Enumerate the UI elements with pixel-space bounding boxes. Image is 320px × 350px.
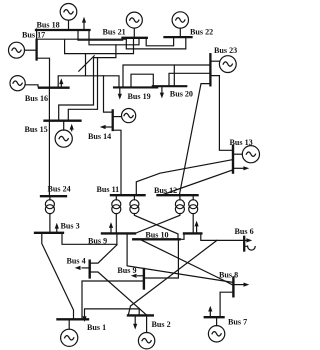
- svg-text:Bus 9: Bus 9: [88, 237, 107, 246]
- wire 18-21 ckt2: [89, 30, 139, 45]
- load arrow bus 18: [82, 17, 86, 29]
- wire G23 lead: [210, 60, 219, 62]
- wire 13-11: [136, 160, 232, 194]
- wire 9-8: [127, 235, 232, 283]
- bus 21 bar: [123, 37, 147, 39]
- wire bus10 step: [180, 233, 184, 239]
- bus 5 bar: [143, 269, 145, 289]
- bus 2 bar: [128, 314, 153, 316]
- generator G7: [208, 326, 224, 342]
- wire 16-14: [104, 76, 112, 112]
- load arrow bus 8: [235, 283, 250, 287]
- generator G2: [138, 333, 154, 349]
- wire 2-6: [129, 240, 217, 314]
- wire 17-18: [36, 29, 38, 40]
- bus 14 bar: [112, 110, 114, 130]
- transformer T3 (12-9): [175, 200, 184, 214]
- wire 17-16: [37, 58, 50, 87]
- wire 7-8: [220, 292, 232, 316]
- bus 24 bar: [41, 195, 66, 197]
- load arrow bus 16: [59, 78, 63, 86]
- wire 4-9: [91, 245, 117, 263]
- svg-text:Bus 24: Bus 24: [48, 185, 71, 194]
- bus 4 bar: [88, 261, 90, 278]
- reactor bus 6: [245, 246, 255, 250]
- load arrow bus 10: [195, 221, 199, 233]
- svg-text:Bus 8: Bus 8: [219, 271, 238, 280]
- generator G23: [219, 56, 236, 73]
- transformer T1 (11-9): [112, 200, 121, 214]
- svg-text:Bus 2: Bus 2: [152, 320, 171, 329]
- bus 22 bar: [165, 36, 192, 38]
- generator G18: [60, 4, 77, 21]
- wire T1 top lead: [115, 196, 117, 200]
- load arrow bus 6: [245, 238, 252, 242]
- wire G18 lead: [68, 20, 70, 29]
- wire T2 top lead: [133, 196, 135, 200]
- svg-text:Bus 18: Bus 18: [37, 21, 60, 30]
- wire 10-6: [201, 235, 243, 241]
- wire T4 top lead: [192, 196, 194, 200]
- wire G21 lead: [133, 28, 135, 37]
- wire 16-15: [48, 89, 50, 120]
- load arrow bus 1: [82, 316, 86, 322]
- wire T3 to bus 9 diagonal: [135, 214, 180, 234]
- bus 10 bar: [133, 238, 179, 240]
- svg-text:Bus 20: Bus 20: [170, 90, 193, 99]
- wire T2 to bus 10 diagonal: [134, 214, 178, 238]
- svg-text:Bus 19: Bus 19: [128, 92, 151, 101]
- wire 3-9: [62, 234, 117, 244]
- wire G1 lead: [68, 321, 70, 330]
- load arrow bus 19: [118, 88, 122, 99]
- bus 20 bar: [153, 85, 187, 87]
- wire 10-8: [142, 240, 233, 285]
- bus 18 bar: [36, 29, 90, 31]
- bus 7 bar: [205, 316, 224, 318]
- bus 8 bar: [232, 278, 234, 297]
- wire 21-22: [146, 38, 173, 46]
- wire G22 lead: [179, 28, 181, 36]
- wire 23-13: [210, 76, 232, 151]
- bus 9 bar: [102, 232, 135, 234]
- generator G17: [9, 42, 25, 58]
- bus 11 bar: [111, 194, 145, 196]
- load arrow bus 14: [100, 125, 113, 129]
- load arrow bus 7: [208, 306, 212, 316]
- generator G13: [242, 146, 259, 163]
- load arrow bus 4: [75, 266, 90, 270]
- wire branch segment: [85, 54, 87, 76]
- transformer T2 (11-10): [130, 200, 139, 214]
- wire 21-15 ckt1: [65, 38, 134, 53]
- bus 23 bar: [209, 54, 211, 85]
- load arrow bus 15: [70, 124, 74, 131]
- bus 17 bar: [35, 40, 37, 60]
- wire 14-11: [113, 130, 121, 194]
- svg-text:Bus 22: Bus 22: [190, 27, 213, 36]
- wire 18-21 ckt1: [78, 30, 123, 40]
- wire G7 lead: [216, 319, 218, 326]
- wire T4 to bus 10: [192, 214, 194, 233]
- svg-text:Bus 14: Bus 14: [88, 132, 111, 141]
- transformer T4 (12-10): [189, 200, 198, 214]
- transformer T24 (24-3): [45, 200, 54, 214]
- svg-text:Bus 10: Bus 10: [145, 230, 168, 239]
- wire 20-23 ckt1 with 19 tap: [123, 65, 210, 87]
- wire 2-4: [91, 272, 146, 315]
- svg-text:Bus 21: Bus 21: [103, 28, 126, 37]
- bus 15 bar: [45, 120, 81, 122]
- generator G21: [126, 12, 142, 28]
- svg-text:Bus 16: Bus 16: [25, 94, 48, 103]
- wire T1 to bus 9: [115, 214, 117, 233]
- svg-text:Bus 9: Bus 9: [117, 266, 136, 275]
- bus 13 bar: [232, 146, 234, 173]
- wire G15 lead: [63, 122, 65, 130]
- wire 16-19: [58, 76, 119, 87]
- generator G14: [122, 109, 136, 123]
- svg-text:Bus 3: Bus 3: [61, 222, 80, 231]
- bus 12 bar: [158, 194, 198, 196]
- wire 5-10: [145, 241, 178, 279]
- wire 19-20 inner link: [131, 74, 153, 87]
- generator G22: [172, 12, 188, 28]
- load arrow bus 13: [234, 166, 249, 170]
- load arrow bus 20: [160, 87, 164, 98]
- wire 21-15 ckt2: [59, 45, 116, 120]
- svg-text:Bus 1: Bus 1: [87, 323, 106, 332]
- wire diagonal segment: [79, 56, 94, 71]
- svg-text:Bus 17: Bus 17: [22, 31, 45, 40]
- wire 13-12: [164, 170, 233, 194]
- wire T3 top lead: [179, 196, 181, 200]
- load arrow bus 3: [55, 223, 59, 232]
- bus 6 bar: [243, 237, 245, 251]
- wire 1-2: [85, 309, 140, 318]
- bus 1 bar: [58, 318, 89, 320]
- wire T24 top lead: [49, 197, 51, 200]
- svg-text:Bus 23: Bus 23: [214, 46, 237, 55]
- wire G16 lead: [25, 85, 38, 87]
- wire 17-22: [37, 38, 186, 49]
- bus 16 bar: [39, 87, 69, 89]
- svg-text:Bus 11: Bus 11: [97, 185, 120, 194]
- wire G14 lead: [114, 116, 122, 118]
- svg-text:Bus 15: Bus 15: [25, 125, 48, 134]
- load arrow bus 5: [131, 274, 144, 278]
- generator G1: [61, 329, 78, 346]
- generator G16: [10, 76, 25, 91]
- wire 21-15 ckt2b: [68, 58, 97, 120]
- generator G15: [55, 130, 72, 147]
- wire tap 20 on ckt1: [173, 65, 175, 86]
- bus 10 bar right segment: [184, 232, 201, 234]
- wire G17 lead: [25, 49, 36, 51]
- wire 20-23 ckt2: [169, 73, 210, 86]
- bus 3 bar: [35, 232, 63, 234]
- load arrow bus 2: [133, 317, 137, 330]
- bus 19 bar: [114, 86, 157, 88]
- wire G2 lead: [146, 317, 148, 333]
- svg-text:Bus 6: Bus 6: [235, 227, 254, 236]
- wire 23-12: [180, 84, 211, 195]
- wire 15-24: [48, 122, 50, 195]
- wire 1-5: [82, 281, 144, 318]
- svg-text:Bus 4: Bus 4: [67, 256, 86, 265]
- wire 3-1: [42, 234, 74, 318]
- svg-text:Bus 7: Bus 7: [228, 317, 247, 326]
- wire G13 lead: [234, 153, 242, 155]
- wire T24 bottom lead: [49, 214, 51, 232]
- load arrow bus 9: [109, 222, 113, 232]
